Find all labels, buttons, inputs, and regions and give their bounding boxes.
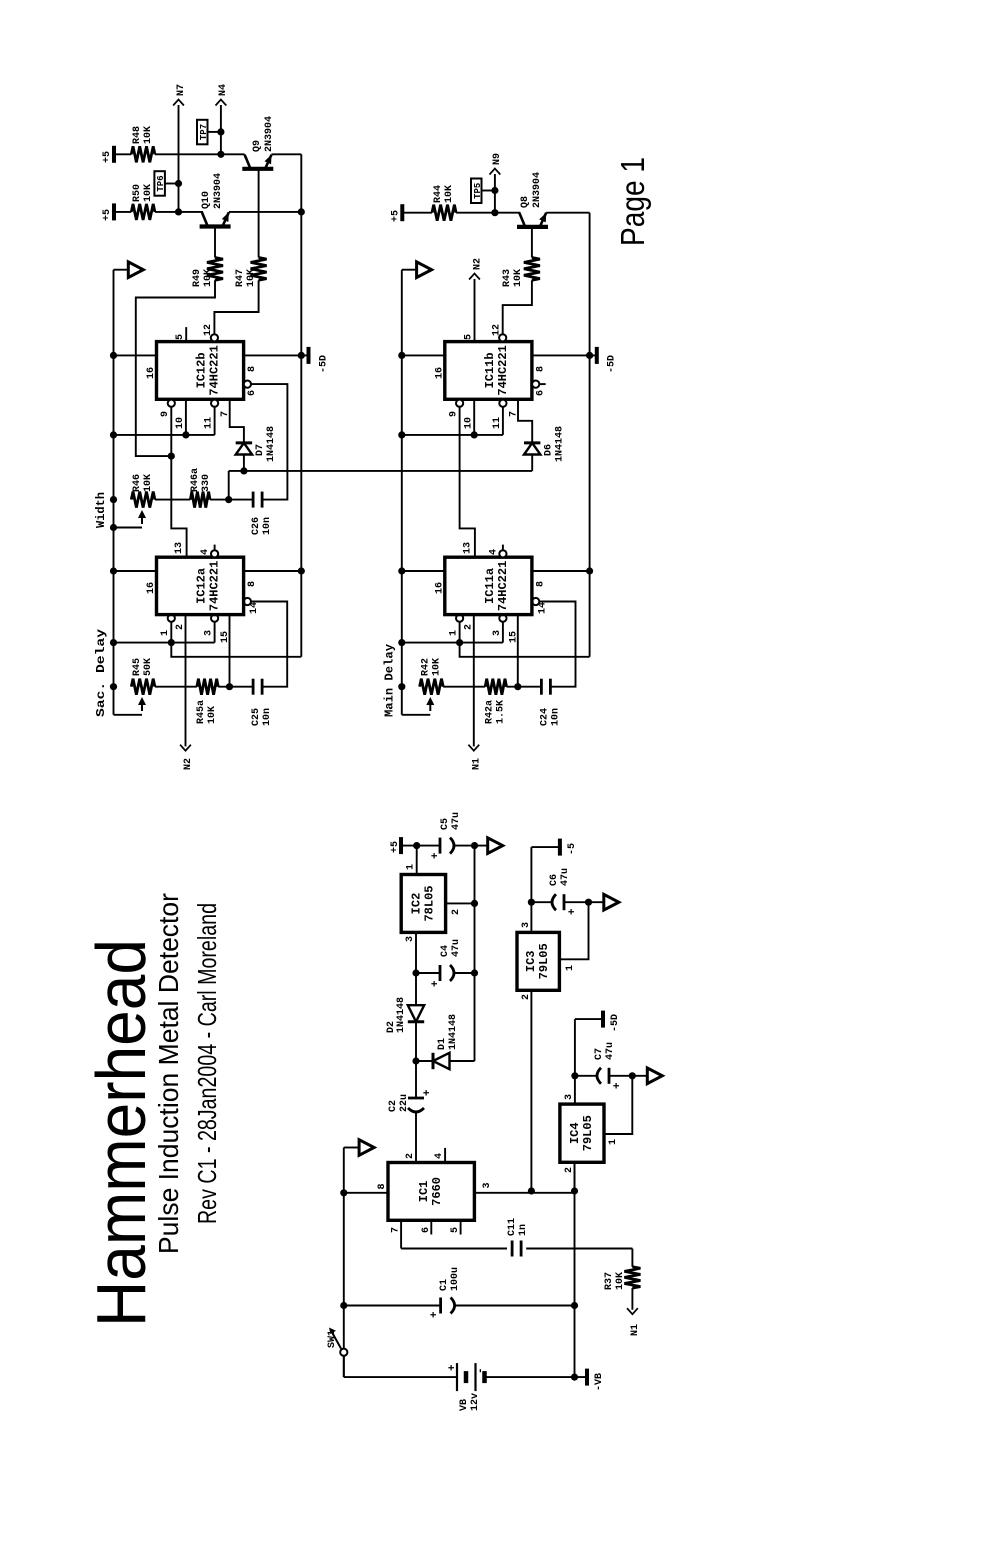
svg-text:C24: C24 xyxy=(539,708,550,726)
svg-text:+: + xyxy=(422,1089,434,1096)
svg-text:5: 5 xyxy=(450,1227,461,1233)
junction pin15/C25 xyxy=(226,683,233,690)
svg-text:C5: C5 xyxy=(440,818,451,830)
junction pin9-line/R49 feed xyxy=(168,453,175,460)
junction C4 top xyxy=(412,969,419,976)
wire pin8 IC12a xyxy=(244,570,302,572)
wire D6 lead xyxy=(531,455,533,471)
svg-text:3: 3 xyxy=(204,630,215,636)
svg-text:+5: +5 xyxy=(390,841,401,853)
wire pins10-11 line IC12b xyxy=(114,434,215,436)
wire Q8 emitter to rail2 xyxy=(546,212,589,214)
svg-text:3: 3 xyxy=(405,936,416,942)
testpoint TP5 xyxy=(471,179,482,204)
svg-text:8: 8 xyxy=(377,1183,388,1189)
wire R45a to pin15 node xyxy=(218,686,253,688)
pin 12 circle IC11b xyxy=(499,334,506,341)
junction rail/pins10-11 IC12b xyxy=(110,431,117,438)
svg-text:1n: 1n xyxy=(518,1224,529,1236)
battery VB xyxy=(456,1363,458,1391)
port N2 output xyxy=(469,274,480,280)
pot wiper R42 xyxy=(429,702,431,711)
pin 3 circle IC11a xyxy=(499,615,506,622)
svg-text:16: 16 xyxy=(434,367,445,379)
port N9 output xyxy=(490,169,501,175)
wire C11 lower lead xyxy=(526,1248,632,1250)
pin 11 circle IC11b xyxy=(499,400,506,407)
svg-text:13: 13 xyxy=(462,542,473,554)
svg-text:10K: 10K xyxy=(143,474,154,492)
pin 14 circle IC11a xyxy=(532,598,539,605)
wire pin12 elbow IC11b xyxy=(503,280,532,334)
svg-text:14: 14 xyxy=(537,602,548,614)
wire pin16 IC11a xyxy=(402,570,445,572)
svg-text:10n: 10n xyxy=(550,708,561,726)
resistor R43 10K xyxy=(524,258,540,281)
power arrow IC12 row xyxy=(128,262,143,278)
svg-text:N2: N2 xyxy=(472,258,483,270)
svg-text:-5D: -5D xyxy=(610,1014,621,1032)
junction pin3-column/-VB rail xyxy=(571,1187,578,1194)
wire C25 to pin14 elbow xyxy=(251,602,287,687)
wire IC1 pin4 stub xyxy=(444,1148,446,1163)
diode D7 1N4148 xyxy=(236,443,252,455)
svg-text:100u: 100u xyxy=(450,1267,461,1291)
svg-text:C4: C4 xyxy=(440,945,451,957)
wire IC4 pin3 line xyxy=(574,1019,576,1104)
wire D6-D7 tie line xyxy=(229,470,533,472)
pot wiper R46 xyxy=(141,515,143,524)
ic IC12a 74HC221 xyxy=(157,557,244,614)
svg-text:Q9: Q9 xyxy=(252,140,263,152)
junction pin10 IC11b xyxy=(471,431,478,438)
svg-text:D7: D7 xyxy=(255,444,266,456)
wire Q9 base to R47 xyxy=(258,169,260,258)
wire N2 out line xyxy=(474,279,476,342)
wire pin2 port line IC12a xyxy=(185,615,187,747)
capacitor C7 xyxy=(597,1068,601,1084)
svg-text:11: 11 xyxy=(492,417,503,429)
svg-text:11: 11 xyxy=(204,417,215,429)
wire C1 bottom lead xyxy=(454,1305,575,1307)
ic IC1 7660 xyxy=(388,1163,474,1221)
wire R46 to R46a xyxy=(155,499,191,501)
svg-text:10n: 10n xyxy=(262,517,273,535)
svg-text:2: 2 xyxy=(451,909,462,915)
pin 6 circle IC12b xyxy=(244,381,251,388)
wire R46a-node to tie line xyxy=(228,471,230,500)
wire +5 lower xyxy=(453,845,488,847)
svg-text:9: 9 xyxy=(160,411,171,417)
wire IC1 pin6 stub xyxy=(430,1220,432,1234)
svg-text:74HC221: 74HC221 xyxy=(496,561,510,611)
wire C7 lower lead xyxy=(609,1075,647,1077)
testpoint TP6 xyxy=(154,171,165,196)
svg-text:330: 330 xyxy=(201,474,212,492)
svg-text:R37: R37 xyxy=(604,1272,615,1290)
svg-text:IC1: IC1 xyxy=(417,1181,431,1203)
junction D1/D2 node xyxy=(412,1057,419,1064)
pin 14 circle IC12a xyxy=(244,598,251,605)
svg-text:10K: 10K xyxy=(207,706,218,724)
junction rail2/pin8 IC12a xyxy=(298,567,305,574)
svg-text:TP7: TP7 xyxy=(199,124,209,140)
capacitor C11 xyxy=(511,1241,514,1257)
pin 4 circle IC11a xyxy=(499,550,506,557)
junction rail/R46 wiper xyxy=(110,524,117,531)
svg-text:3: 3 xyxy=(492,630,503,636)
terminal +5 R50 xyxy=(112,203,116,220)
svg-text:5: 5 xyxy=(175,334,186,340)
svg-text:R46: R46 xyxy=(132,474,143,492)
svg-text:10K: 10K xyxy=(143,184,154,202)
wire IC3 pin1 xyxy=(559,902,588,959)
wire R46a to C26 node xyxy=(210,499,253,501)
junction C6/pin3line xyxy=(528,899,535,906)
junction rail2/Q10 emitter xyxy=(298,208,305,215)
wire C1 top lead xyxy=(344,1305,441,1307)
wire C4 upper lead xyxy=(416,972,440,974)
svg-text:N9: N9 xyxy=(492,153,503,165)
svg-text:7660: 7660 xyxy=(430,1177,444,1206)
svg-text:IC3: IC3 xyxy=(524,950,538,972)
svg-text:-5D: -5D xyxy=(607,355,618,373)
svg-text:Width: Width xyxy=(94,492,108,528)
junction C1/-VB rail xyxy=(571,1302,578,1309)
junction pin10 IC12b xyxy=(182,431,189,438)
junction IC2 pin2 bus xyxy=(471,900,478,907)
svg-text:78L05: 78L05 xyxy=(422,885,436,921)
svg-text:+5: +5 xyxy=(102,151,113,163)
terminal +5 R48 xyxy=(112,146,116,163)
svg-text:12v: 12v xyxy=(470,1393,481,1411)
port N4 output xyxy=(216,100,227,106)
svg-text:3: 3 xyxy=(482,1182,493,1188)
wire IC4 pin2 xyxy=(574,1161,576,1163)
svg-text:74HC221: 74HC221 xyxy=(208,561,222,611)
svg-text:-5D: -5D xyxy=(318,355,329,373)
junction rail/pins10-11 IC11b xyxy=(398,431,405,438)
junction C6/pin1 xyxy=(585,899,592,906)
svg-text:R45a: R45a xyxy=(196,700,207,724)
ic IC11a 74HC221 xyxy=(445,557,532,614)
power arrow +5 line xyxy=(488,838,503,854)
junction IC3pin2-line/IC1 pin3 xyxy=(528,1187,535,1194)
svg-text:2: 2 xyxy=(463,624,474,630)
junction rail/R46 chain xyxy=(110,496,117,503)
svg-text:Q10: Q10 xyxy=(201,191,212,209)
wire pin5 stub IC12b xyxy=(185,327,187,342)
pin 1 circle IC12a xyxy=(168,615,175,622)
resistor R47 10K xyxy=(251,258,267,281)
svg-text:-5: -5 xyxy=(567,843,578,855)
wire R37 right lead xyxy=(631,1249,633,1267)
svg-text:8: 8 xyxy=(247,581,258,587)
wire pin12 elbow IC12b xyxy=(214,280,258,334)
wire battery bottom lead xyxy=(485,1376,588,1378)
svg-text:+: + xyxy=(429,1311,441,1318)
svg-text:14: 14 xyxy=(249,602,260,614)
junction pin15/C24 xyxy=(514,683,521,690)
junction rail/R42 chain xyxy=(398,683,405,690)
resistor R46a 330 xyxy=(190,492,210,508)
svg-text:R50: R50 xyxy=(132,184,143,202)
wire pin13-pin9 IC12 xyxy=(171,407,186,558)
svg-text:C7: C7 xyxy=(594,1048,605,1060)
svg-text:6: 6 xyxy=(535,390,546,396)
svg-text:Rev C1 - 28Jan2004 - Carl More: Rev C1 - 28Jan2004 - Carl Moreland xyxy=(192,903,222,1224)
svg-text:4: 4 xyxy=(434,1153,445,1159)
svg-text:74HC221: 74HC221 xyxy=(208,345,222,395)
wire R42 to R42a xyxy=(443,686,485,688)
junction TP5/N9 xyxy=(491,187,498,194)
svg-text:D1: D1 xyxy=(437,1038,448,1050)
junction rail2/pin8 IC11a xyxy=(586,567,593,574)
wire pin8 IC11b xyxy=(532,354,597,356)
svg-text:16: 16 xyxy=(434,582,445,594)
svg-text:N2: N2 xyxy=(183,758,194,770)
svg-text:74HC221: 74HC221 xyxy=(496,345,510,395)
junction rail2/pin8 IC11b xyxy=(586,352,593,359)
pin 9 circle IC12b xyxy=(168,400,175,407)
svg-text:N7: N7 xyxy=(176,84,187,96)
terminal +5 R44 xyxy=(400,204,404,221)
svg-text:2N3904: 2N3904 xyxy=(532,172,543,208)
ground -5D IC11b xyxy=(595,347,599,364)
terminal -VB xyxy=(585,1369,589,1386)
wire Q9 emitter to rail2 xyxy=(272,153,302,155)
svg-text:C6: C6 xyxy=(549,874,560,886)
wire Q10 emitter to rail2 xyxy=(229,211,301,213)
wire N4 line xyxy=(220,105,222,154)
svg-text:10K: 10K xyxy=(431,658,442,676)
wire C7 upper lead xyxy=(575,1075,598,1077)
junction battery/-VB rail xyxy=(571,1374,578,1381)
wire pins10-11 line IC11b xyxy=(402,434,503,436)
wire R49 feed jog xyxy=(136,280,215,456)
wire C6 lower lead xyxy=(564,901,604,903)
wire +VB rail xyxy=(343,1148,345,1378)
pot wiper R45 xyxy=(141,702,143,711)
svg-text:+: + xyxy=(567,908,579,915)
wire IC4 pin1 xyxy=(604,1076,632,1134)
wire IC2 pin2 xyxy=(446,902,475,904)
svg-text:6: 6 xyxy=(421,1227,432,1233)
svg-text:Sac. Delay: Sac. Delay xyxy=(94,629,108,717)
wire pin16 IC12b xyxy=(114,354,157,356)
svg-text:79L05: 79L05 xyxy=(581,1115,595,1151)
terminal +5 power xyxy=(399,837,403,854)
wire C24 to pin14 elbow xyxy=(539,602,575,687)
resistor R49 10K xyxy=(207,258,223,281)
wire +5 rail IC11 row xyxy=(401,270,403,715)
wire pins1-3 line IC11a xyxy=(402,642,503,644)
svg-text:IC11a: IC11a xyxy=(483,568,497,604)
wire pin16 IC12a xyxy=(114,570,157,572)
pin 4 circle IC12a xyxy=(211,550,218,557)
pin 1 circle IC11a xyxy=(456,615,463,622)
diode D1 1N4148 xyxy=(433,1053,450,1069)
junction N4/R48 column xyxy=(217,151,224,158)
junction rail/pins1-3 line IC11a xyxy=(398,639,405,646)
svg-text:79L05: 79L05 xyxy=(537,943,551,979)
svg-text:47u: 47u xyxy=(605,1042,616,1060)
svg-text:R46a: R46a xyxy=(190,468,201,492)
capacitor C1 xyxy=(439,1298,442,1314)
pin 3 circle IC12a xyxy=(211,615,218,622)
svg-text:47u: 47u xyxy=(451,939,462,957)
svg-text:Hammerhead: Hammerhead xyxy=(82,939,160,1327)
wire -VB rail xyxy=(574,1162,576,1377)
ic IC4 79L05 xyxy=(560,1104,604,1162)
svg-text:2: 2 xyxy=(564,1167,575,1173)
junction D7/tie line xyxy=(240,467,247,474)
power arrow -5 line xyxy=(604,894,619,910)
wire power-arrow stub IC12 row xyxy=(114,269,129,271)
svg-text:10K: 10K xyxy=(246,269,257,287)
svg-text:10K: 10K xyxy=(143,126,154,144)
svg-text:2: 2 xyxy=(405,1153,416,1159)
capacitor C2 xyxy=(408,1097,424,1100)
svg-text:8: 8 xyxy=(247,366,258,372)
wire pin7 IC12b xyxy=(230,399,244,443)
svg-text:IC4: IC4 xyxy=(568,1122,582,1144)
wire IC1 pin5 stub xyxy=(460,1220,462,1234)
wire pin3 IC12a xyxy=(214,622,216,643)
svg-text:1N4148: 1N4148 xyxy=(448,1014,459,1050)
svg-text:22u: 22u xyxy=(399,1094,410,1112)
svg-text:1.5K: 1.5K xyxy=(495,700,506,724)
wire R42a to pin15 node xyxy=(507,686,542,688)
wire pin3 IC11a xyxy=(502,622,504,643)
svg-text:2: 2 xyxy=(521,994,532,1000)
wire Q8 base to R43 xyxy=(531,227,533,258)
wire IC3 pin2 line xyxy=(530,990,532,1191)
junction rail/IC1 pin8 xyxy=(340,1189,347,1196)
port N2 input xyxy=(180,745,191,751)
ic IC2 78L05 xyxy=(401,875,445,933)
pin 11 circle IC12b xyxy=(211,400,218,407)
wire IC1 pin2 to C2 xyxy=(415,1111,417,1163)
svg-text:1: 1 xyxy=(160,630,171,636)
svg-text:47u: 47u xyxy=(560,868,571,886)
svg-text:16: 16 xyxy=(146,367,157,379)
svg-text:+5: +5 xyxy=(390,210,401,222)
pin 6 circle IC11b xyxy=(532,381,539,388)
svg-text:10K: 10K xyxy=(203,269,214,287)
ic IC12b 74HC221 xyxy=(157,342,244,400)
junction +5line bus xyxy=(471,842,478,849)
resistor R44 10K xyxy=(432,205,456,221)
transistor Q10 2N3904 xyxy=(200,224,231,228)
wire pin2 port line IC11a xyxy=(473,615,475,747)
svg-text:7: 7 xyxy=(391,1227,402,1233)
svg-text:8: 8 xyxy=(535,366,546,372)
wire -5 drop xyxy=(531,846,560,848)
svg-text:16: 16 xyxy=(146,582,157,594)
wire pin10 IC11b xyxy=(473,399,475,435)
svg-text:4: 4 xyxy=(488,549,499,555)
junction rail/pin16 IC12a xyxy=(110,567,117,574)
wire pin1 jog IC12a xyxy=(171,622,301,657)
junction pin1 IC12a xyxy=(168,639,175,646)
wire pin8 IC12b xyxy=(244,354,309,356)
capacitor C26 10n xyxy=(252,492,255,508)
wire pin1 jog IC11a xyxy=(460,622,590,657)
wire IC2 pin1 xyxy=(416,846,418,875)
junction rail/pin16 IC12b xyxy=(110,352,117,359)
terminal -5D power xyxy=(601,1011,605,1028)
wire D1 upper lead xyxy=(416,1060,433,1062)
wire C2 to D-node xyxy=(415,1061,417,1098)
svg-text:R42: R42 xyxy=(420,658,431,676)
svg-text:R42a: R42a xyxy=(484,700,495,724)
svg-text:1N4148: 1N4148 xyxy=(396,997,407,1033)
transistor Q9 2N3904 xyxy=(242,167,273,171)
svg-text:R47: R47 xyxy=(235,269,246,287)
svg-text:1: 1 xyxy=(448,630,459,636)
junction C4 bottom xyxy=(471,969,478,976)
svg-text:R44: R44 xyxy=(433,185,444,203)
svg-text:C11: C11 xyxy=(507,1218,518,1236)
wire battery top lead xyxy=(344,1376,457,1378)
junction rail/pins1-3 line IC12a xyxy=(110,639,117,646)
svg-text:47u: 47u xyxy=(451,812,462,830)
power arrow -5D line xyxy=(647,1068,662,1084)
diode D6 1N4148 xyxy=(524,443,540,455)
wire +5 upper xyxy=(401,845,440,847)
wire IC1 pin3 column xyxy=(474,1192,574,1194)
pin 9 circle IC11b xyxy=(456,400,463,407)
junction rail/R45 chain xyxy=(110,683,117,690)
resistor R48 10K xyxy=(131,146,155,162)
svg-text:IC11b: IC11b xyxy=(483,352,497,388)
junction rail2/pin8 IC12b xyxy=(298,352,305,359)
svg-text:1: 1 xyxy=(406,864,417,870)
ic IC11b 74HC221 xyxy=(445,342,532,400)
port N1 power xyxy=(627,1308,638,1314)
wire IC1 pin7 lead xyxy=(400,1220,402,1248)
svg-text:IC2: IC2 xyxy=(409,893,423,915)
wire minusVB bus xyxy=(474,846,476,1061)
resistor R42 10K pot xyxy=(420,679,444,695)
wire pins1-3 line IC12a xyxy=(114,642,215,644)
junction N9/R44 column xyxy=(491,209,498,216)
wire N7 line xyxy=(178,105,180,212)
wire -5D drop xyxy=(575,1018,603,1020)
ground -5D IC12b xyxy=(307,347,311,364)
svg-text:VB: VB xyxy=(459,1399,470,1411)
svg-text:C26: C26 xyxy=(251,517,262,535)
svg-text:10n: 10n xyxy=(262,708,273,726)
svg-text:2N3904: 2N3904 xyxy=(213,173,224,209)
capacitor C6 xyxy=(552,894,556,910)
svg-text:50K: 50K xyxy=(143,658,154,676)
svg-text:9: 9 xyxy=(448,411,459,417)
wire R48 upper lead xyxy=(114,153,131,155)
wire R48 to Q9 collector xyxy=(155,153,245,155)
port N1 input xyxy=(468,745,479,751)
junction rail/C1 xyxy=(340,1302,347,1309)
svg-text:8: 8 xyxy=(535,581,546,587)
svg-text:D6: D6 xyxy=(543,444,554,456)
svg-text:1N4148: 1N4148 xyxy=(554,426,565,462)
svg-text:N4: N4 xyxy=(218,84,229,96)
wire C11 upper lead xyxy=(401,1248,507,1250)
wire R50 upper lead xyxy=(114,211,131,213)
svg-text:SW1: SW1 xyxy=(327,1330,338,1348)
svg-text:C2: C2 xyxy=(388,1100,399,1112)
